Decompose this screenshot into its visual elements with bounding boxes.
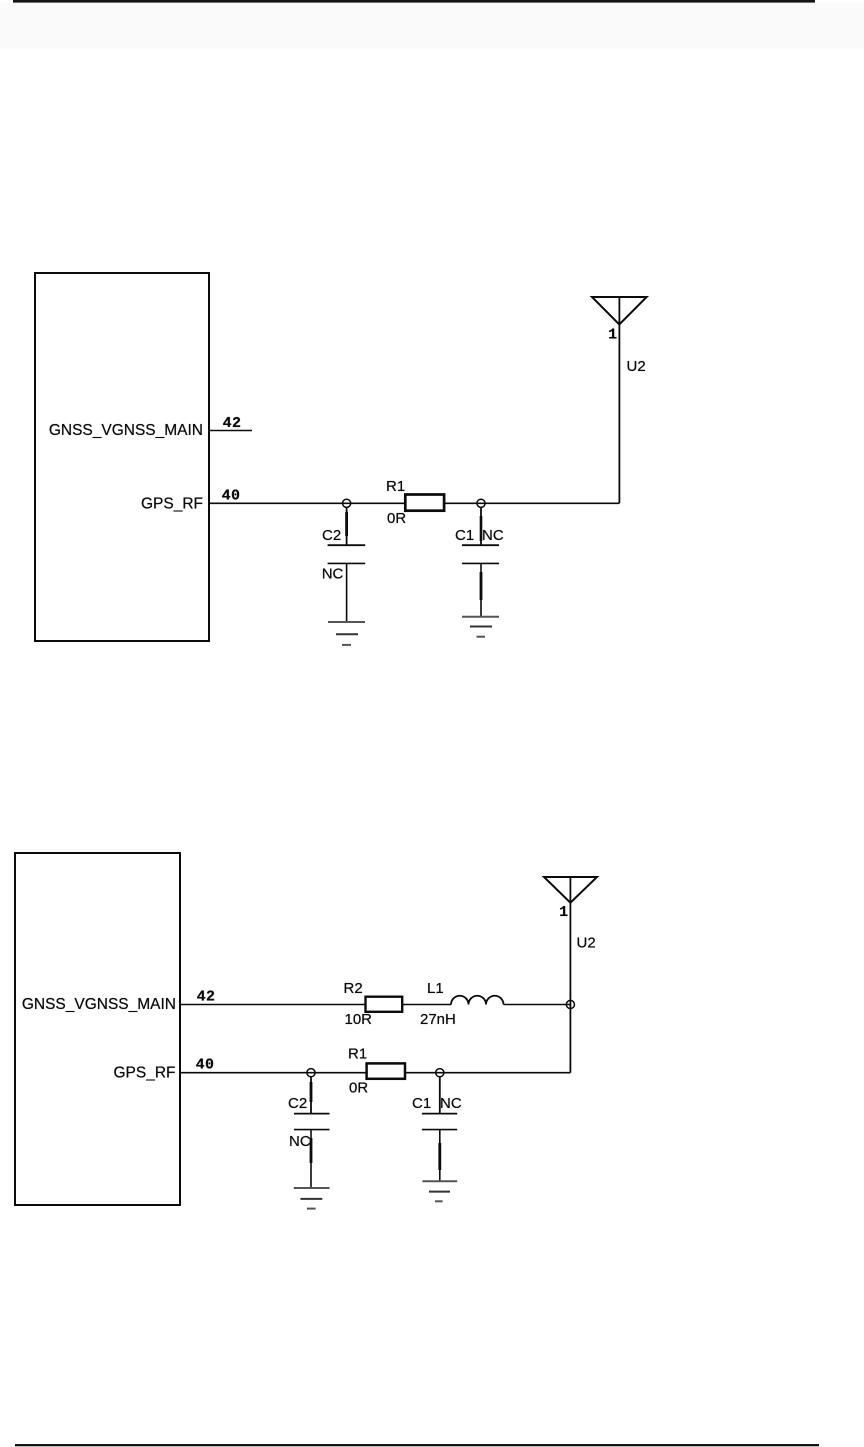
wire L1 to junction xyxy=(504,1004,571,1006)
svg-text:C2: C2 xyxy=(322,527,341,544)
wire pin 40 to R1 xyxy=(181,1072,367,1074)
antenna U2 xyxy=(592,297,647,325)
wire GPS_RF net xyxy=(209,502,405,504)
antenna U2 xyxy=(544,877,597,903)
svg-text:GPS_RF: GPS_RF xyxy=(141,495,203,512)
inductor L1 xyxy=(451,996,504,1005)
IC box xyxy=(15,853,180,1205)
ground (below C1) xyxy=(422,1181,457,1201)
capacitor C1 xyxy=(422,1077,457,1182)
node junction C1 xyxy=(477,499,485,507)
ground (below C2) xyxy=(294,1188,330,1209)
resistor R2 xyxy=(366,997,403,1012)
svg-text:GPS_RF: GPS_RF xyxy=(113,1065,175,1082)
svg-text:1: 1 xyxy=(608,327,617,344)
svg-text:R2: R2 xyxy=(344,980,363,997)
svg-text:U2: U2 xyxy=(577,935,596,952)
node junction C1 xyxy=(436,1069,444,1077)
wire R1 to antenna xyxy=(444,502,619,504)
ground (below C2) xyxy=(328,622,365,645)
capacitor C1 xyxy=(462,507,499,617)
svg-text:0R: 0R xyxy=(349,1080,368,1097)
svg-text:0R: 0R xyxy=(387,510,406,527)
svg-text:40: 40 xyxy=(196,1057,215,1074)
svg-text:GNSS_VGNSS_MAIN: GNSS_VGNSS_MAIN xyxy=(49,422,203,439)
svg-text:NC: NC xyxy=(322,566,344,583)
svg-text:C1: C1 xyxy=(412,1095,431,1112)
svg-text:40: 40 xyxy=(222,487,241,504)
wire R2 to L1 xyxy=(402,1004,451,1006)
node junction antenna net xyxy=(566,1000,574,1008)
capacitor C2 xyxy=(294,1077,330,1189)
svg-text:U2: U2 xyxy=(627,358,646,375)
svg-text:NC: NC xyxy=(440,1095,462,1112)
svg-text:NC: NC xyxy=(482,527,504,544)
wire antenna vertical xyxy=(618,297,620,503)
svg-text:1: 1 xyxy=(559,904,568,921)
svg-text:L1: L1 xyxy=(427,980,444,997)
svg-text:10R: 10R xyxy=(345,1011,373,1028)
wire R1 to corner xyxy=(405,1072,570,1074)
capacitor C2 xyxy=(328,507,366,622)
svg-text:C2: C2 xyxy=(288,1095,307,1112)
ground (below C1) xyxy=(462,617,499,637)
IC box xyxy=(35,273,209,641)
resistor R1 xyxy=(405,495,444,511)
node junction C2 xyxy=(307,1069,315,1077)
resistor R1 xyxy=(367,1063,405,1078)
svg-text:C1: C1 xyxy=(455,527,474,544)
wire antenna vertical xyxy=(569,877,571,1073)
wire pin 42 stub xyxy=(209,430,252,432)
svg-text:R1: R1 xyxy=(386,478,405,495)
svg-text:NC: NC xyxy=(289,1133,311,1150)
svg-text:27nH: 27nH xyxy=(420,1011,456,1028)
node junction C2 xyxy=(343,499,351,507)
svg-text:GNSS_VGNSS_MAIN: GNSS_VGNSS_MAIN xyxy=(22,996,176,1013)
svg-text:42: 42 xyxy=(223,415,242,432)
wire pin 42 to R2 xyxy=(181,1004,366,1006)
svg-text:42: 42 xyxy=(197,989,216,1006)
svg-text:R1: R1 xyxy=(348,1046,367,1063)
